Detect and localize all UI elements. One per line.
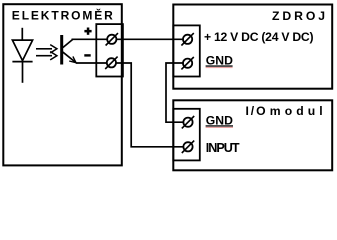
terminal block: ZDROJ [173, 25, 200, 76]
svg-text:ELEKTROMĚR: ELEKTROMĚR [12, 8, 113, 23]
terminal: ZDROJ GND screw [181, 57, 193, 69]
phototransistor Q1 emitter with arrowhead [63, 52, 76, 63]
terminal: I/O INPUT screw [182, 141, 194, 153]
terminal: I/O GND screw [182, 116, 194, 128]
label: GND (I/O modul) underlined [206, 113, 233, 128]
box: I/O modul enclosure [173, 100, 332, 170]
label: − polarity [84, 54, 90, 56]
LED D1 triangle [12, 40, 32, 61]
box: ZDROJ enclosure [173, 5, 332, 89]
label: + polarity [84, 30, 91, 33]
phototransistor Q1 collector [63, 40, 73, 48]
LED D1 anode lead [21, 28, 23, 40]
svg-text:INPUT: INPUT [206, 141, 240, 155]
LED D1 cathode lead [22, 62, 24, 83]
wire: − output (emitter to I/O INPUT) [76, 63, 188, 147]
phototransistor Q1 base bar [60, 35, 63, 65]
svg-text:m o d u l: m o d u l [270, 104, 323, 118]
label: GND (ZDROJ) underlined [206, 54, 233, 69]
wire: GND (ZDROJ GND to I/O GND) [166, 63, 188, 122]
terminal: ELEKTROMĚR − screw [105, 57, 117, 69]
svg-text:ZDROJ: ZDROJ [272, 9, 325, 23]
terminal: ZDROJ +12V screw [181, 33, 193, 45]
light arrow 1 (LED to phototransistor) [36, 45, 57, 53]
light arrow 2 (LED to phototransistor) [36, 52, 57, 60]
wire: + supply (elektroměr collector to ZDROJ +12V) [72, 38, 184, 40]
box: ELEKTROMĚR enclosure [3, 4, 122, 165]
LED D1 cathode bar [12, 61, 32, 63]
terminal block: ELEKTROMĚR pulse output [96, 24, 123, 76]
svg-text:I/O: I/O [246, 104, 268, 118]
svg-text:+ 12 V DC (24 V DC): + 12 V DC (24 V DC) [204, 30, 314, 44]
terminal block: I/O modul [173, 109, 200, 161]
terminal: ELEKTROMĚR + screw [106, 33, 118, 45]
